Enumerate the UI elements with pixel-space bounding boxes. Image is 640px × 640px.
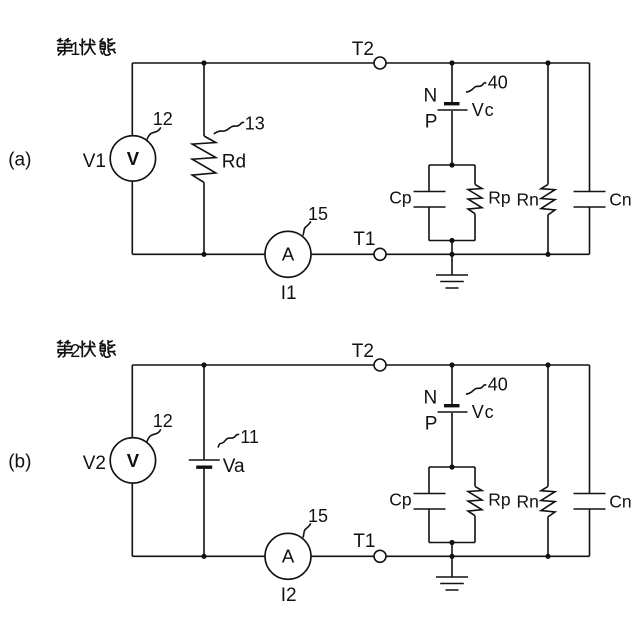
svg-text:N: N — [424, 85, 438, 106]
svg-text:Vc: Vc — [472, 100, 495, 120]
svg-text:13: 13 — [245, 113, 265, 133]
svg-text:I1: I1 — [281, 283, 297, 304]
svg-text:15: 15 — [308, 204, 328, 224]
svg-text:Cp: Cp — [389, 188, 411, 208]
svg-text:Cn: Cn — [609, 190, 631, 210]
svg-text:V2: V2 — [83, 453, 106, 474]
svg-text:V1: V1 — [83, 151, 106, 172]
svg-text:I2: I2 — [281, 585, 297, 606]
svg-text:T2: T2 — [352, 39, 374, 60]
svg-text:1: 1 — [70, 39, 80, 59]
svg-text:2: 2 — [70, 341, 80, 361]
svg-text:T1: T1 — [353, 229, 375, 250]
svg-text:Rd: Rd — [222, 151, 246, 172]
svg-text:Va: Va — [223, 456, 245, 477]
svg-text:(a): (a) — [8, 149, 31, 170]
svg-text:Rn: Rn — [517, 190, 539, 210]
svg-text:Rp: Rp — [488, 188, 510, 208]
svg-text:12: 12 — [153, 109, 173, 129]
svg-text:P: P — [425, 112, 438, 133]
svg-text:11: 11 — [240, 427, 259, 447]
svg-text:40: 40 — [488, 72, 508, 92]
svg-text:V: V — [127, 148, 140, 169]
svg-text:(b): (b) — [8, 451, 31, 472]
svg-text:A: A — [282, 243, 295, 264]
